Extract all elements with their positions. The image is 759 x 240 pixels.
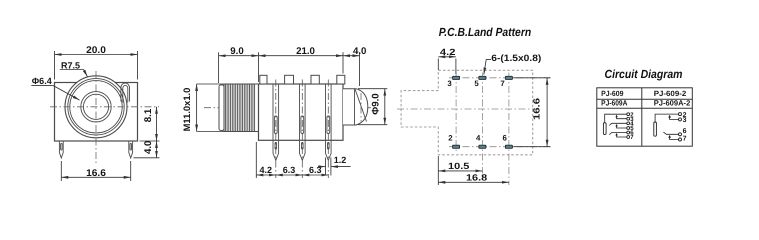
svg-text:6.3: 6.3 <box>283 165 296 175</box>
right circuit wire 3 with switch arm <box>670 116 679 119</box>
dimension 4.2 side <box>256 142 276 178</box>
dimension dia 9.0 <box>358 89 387 125</box>
right circuit terminal 2 <box>679 113 682 116</box>
left circuit terminal 3 <box>627 117 630 120</box>
side pin 3 <box>326 140 332 160</box>
top tab 4 <box>337 75 345 84</box>
ground clip staple <box>121 83 130 102</box>
left circuit wire 3 with switch arm <box>617 116 627 119</box>
right circuit wire 6 with lever tick <box>663 132 678 134</box>
dimension 4.0 <box>134 141 160 158</box>
top tab 1 <box>260 75 267 84</box>
right circuit terminal 7 <box>679 138 682 141</box>
svg-text:6: 6 <box>503 133 508 142</box>
dimension 20.0 <box>55 51 138 80</box>
dimension 6.3 second <box>302 174 328 176</box>
right circuit: sleeve bar <box>654 122 657 136</box>
svg-text:PJ-609A-2: PJ-609A-2 <box>654 99 691 108</box>
left circuit terminal 6 <box>627 131 630 134</box>
front ring circle inner <box>70 81 122 133</box>
land pattern horizontal centerline <box>397 108 537 110</box>
pad 4 <box>479 145 486 148</box>
left circuit terminal 4 <box>627 122 630 125</box>
svg-text:10.5: 10.5 <box>448 161 469 171</box>
svg-text:16.8: 16.8 <box>466 173 487 183</box>
table frame <box>597 88 693 146</box>
pad 3 <box>453 76 460 79</box>
contact column 1 <box>273 84 279 140</box>
nose tip <box>343 89 368 125</box>
front left pin <box>59 141 63 158</box>
svg-text:4: 4 <box>476 133 481 142</box>
svg-text:16.6: 16.6 <box>86 168 106 179</box>
nose centerline tick <box>360 93 362 122</box>
side body <box>259 84 344 140</box>
svg-text:4.0: 4.0 <box>353 46 366 57</box>
svg-text:5: 5 <box>474 79 479 88</box>
dimension 9.0 <box>219 52 259 83</box>
right circuit wire 7 with switch arm <box>670 136 679 139</box>
pad 5 <box>479 76 486 79</box>
left circuit wire 6 with lever tick <box>609 133 627 135</box>
svg-text:P.C.B.Land Pattern: P.C.B.Land Pattern <box>439 25 532 39</box>
front flange circle R7.5 <box>65 76 127 138</box>
pad column centerline 1 <box>455 73 457 152</box>
dimension 4.2 land <box>438 57 456 74</box>
svg-text:7: 7 <box>630 134 634 141</box>
svg-text:20.0: 20.0 <box>86 45 106 56</box>
front right pin <box>129 141 133 158</box>
land pattern outline <box>401 70 533 155</box>
pin centerlines <box>276 80 329 179</box>
pad 7 <box>505 76 512 79</box>
top tab 2 <box>285 75 294 84</box>
svg-text:4.2: 4.2 <box>260 165 273 175</box>
nose vertical line <box>354 89 356 125</box>
left circuit terminal 7 <box>627 136 630 139</box>
pad row centerline top <box>449 77 551 79</box>
svg-text:21.0: 21.0 <box>296 46 315 57</box>
svg-text:6-(1.5x0.8): 6-(1.5x0.8) <box>491 53 541 63</box>
svg-text:R7.5: R7.5 <box>61 60 80 70</box>
svg-text:7: 7 <box>500 79 504 88</box>
dimension 6.3 first <box>276 174 303 176</box>
dimension 16.6 front <box>61 161 130 181</box>
svg-text:2: 2 <box>448 133 453 142</box>
left circuit wire 4 with lever tick <box>609 123 627 125</box>
left circuit terminal 2 <box>627 113 630 116</box>
pad row centerline bottom <box>449 146 551 148</box>
top tab 3 <box>311 75 319 84</box>
svg-text:16.6: 16.6 <box>532 98 542 120</box>
right circuit wire to terminal 2 <box>655 114 679 122</box>
svg-text:M11.0x1.0: M11.0x1.0 <box>181 88 192 132</box>
svg-text:PJ-609: PJ-609 <box>601 89 623 98</box>
front hole chamfer circle <box>81 92 111 122</box>
thread end washer <box>219 85 224 131</box>
svg-text:6: 6 <box>683 128 687 135</box>
side pin 1 <box>273 140 279 160</box>
svg-text:Φ6.4: Φ6.4 <box>32 76 52 86</box>
svg-text:3: 3 <box>447 79 452 88</box>
dimension 16.8 <box>438 181 509 183</box>
contact column 3 <box>326 84 332 140</box>
side centerline <box>204 107 371 109</box>
front ring circle outer <box>68 79 124 135</box>
pad column centerline 3 <box>508 73 510 186</box>
vertical centerline front view <box>95 71 97 165</box>
horizontal centerline front view <box>50 106 159 108</box>
svg-text:8.1: 8.1 <box>143 108 154 122</box>
pad column centerline 2 <box>481 73 483 174</box>
contact column 2 <box>300 84 306 140</box>
dimension M11.0x1.0 <box>197 84 224 132</box>
svg-text:PJ-609-2: PJ-609-2 <box>654 89 687 98</box>
pad 2 <box>453 145 460 148</box>
left circuit wire to terminal 2 <box>605 114 627 123</box>
dimension 4.0 side <box>343 52 360 86</box>
svg-text:9.0: 9.0 <box>230 46 243 57</box>
svg-text:4.2: 4.2 <box>440 47 456 57</box>
svg-text:1.2: 1.2 <box>334 155 347 165</box>
threaded barrel M11.0x1.0 <box>224 84 259 132</box>
left circuit wire 7 with switch arm <box>617 134 627 137</box>
svg-text:3: 3 <box>683 117 687 124</box>
svg-text:Circuit Diagram: Circuit Diagram <box>605 67 683 81</box>
right circuit terminal 6 <box>679 133 682 136</box>
front hole circle dia 6.4 <box>83 94 108 119</box>
right circuit terminal 3 <box>679 118 682 121</box>
dimension 21.0 <box>259 52 344 73</box>
left circuit: sleeve bar <box>603 123 606 135</box>
pad 6 <box>505 145 512 148</box>
front view body <box>55 83 138 142</box>
svg-text:4.0: 4.0 <box>143 141 154 154</box>
dimension 16.6 land <box>514 78 551 147</box>
svg-text:Φ9.0: Φ9.0 <box>370 93 381 114</box>
nose chamfer line <box>355 89 367 122</box>
thread hatch lines <box>225 84 254 132</box>
dimension 8.1 <box>140 107 160 141</box>
svg-text:7: 7 <box>683 136 687 143</box>
dimension 1.2 <box>318 158 351 176</box>
svg-text:PJ-609A: PJ-609A <box>601 99 628 108</box>
side pin 2 <box>300 140 306 160</box>
left circuit wire 5 with switch arm <box>617 125 627 128</box>
left circuit terminal 5 <box>627 127 630 130</box>
dimension 10.5 <box>438 156 482 185</box>
